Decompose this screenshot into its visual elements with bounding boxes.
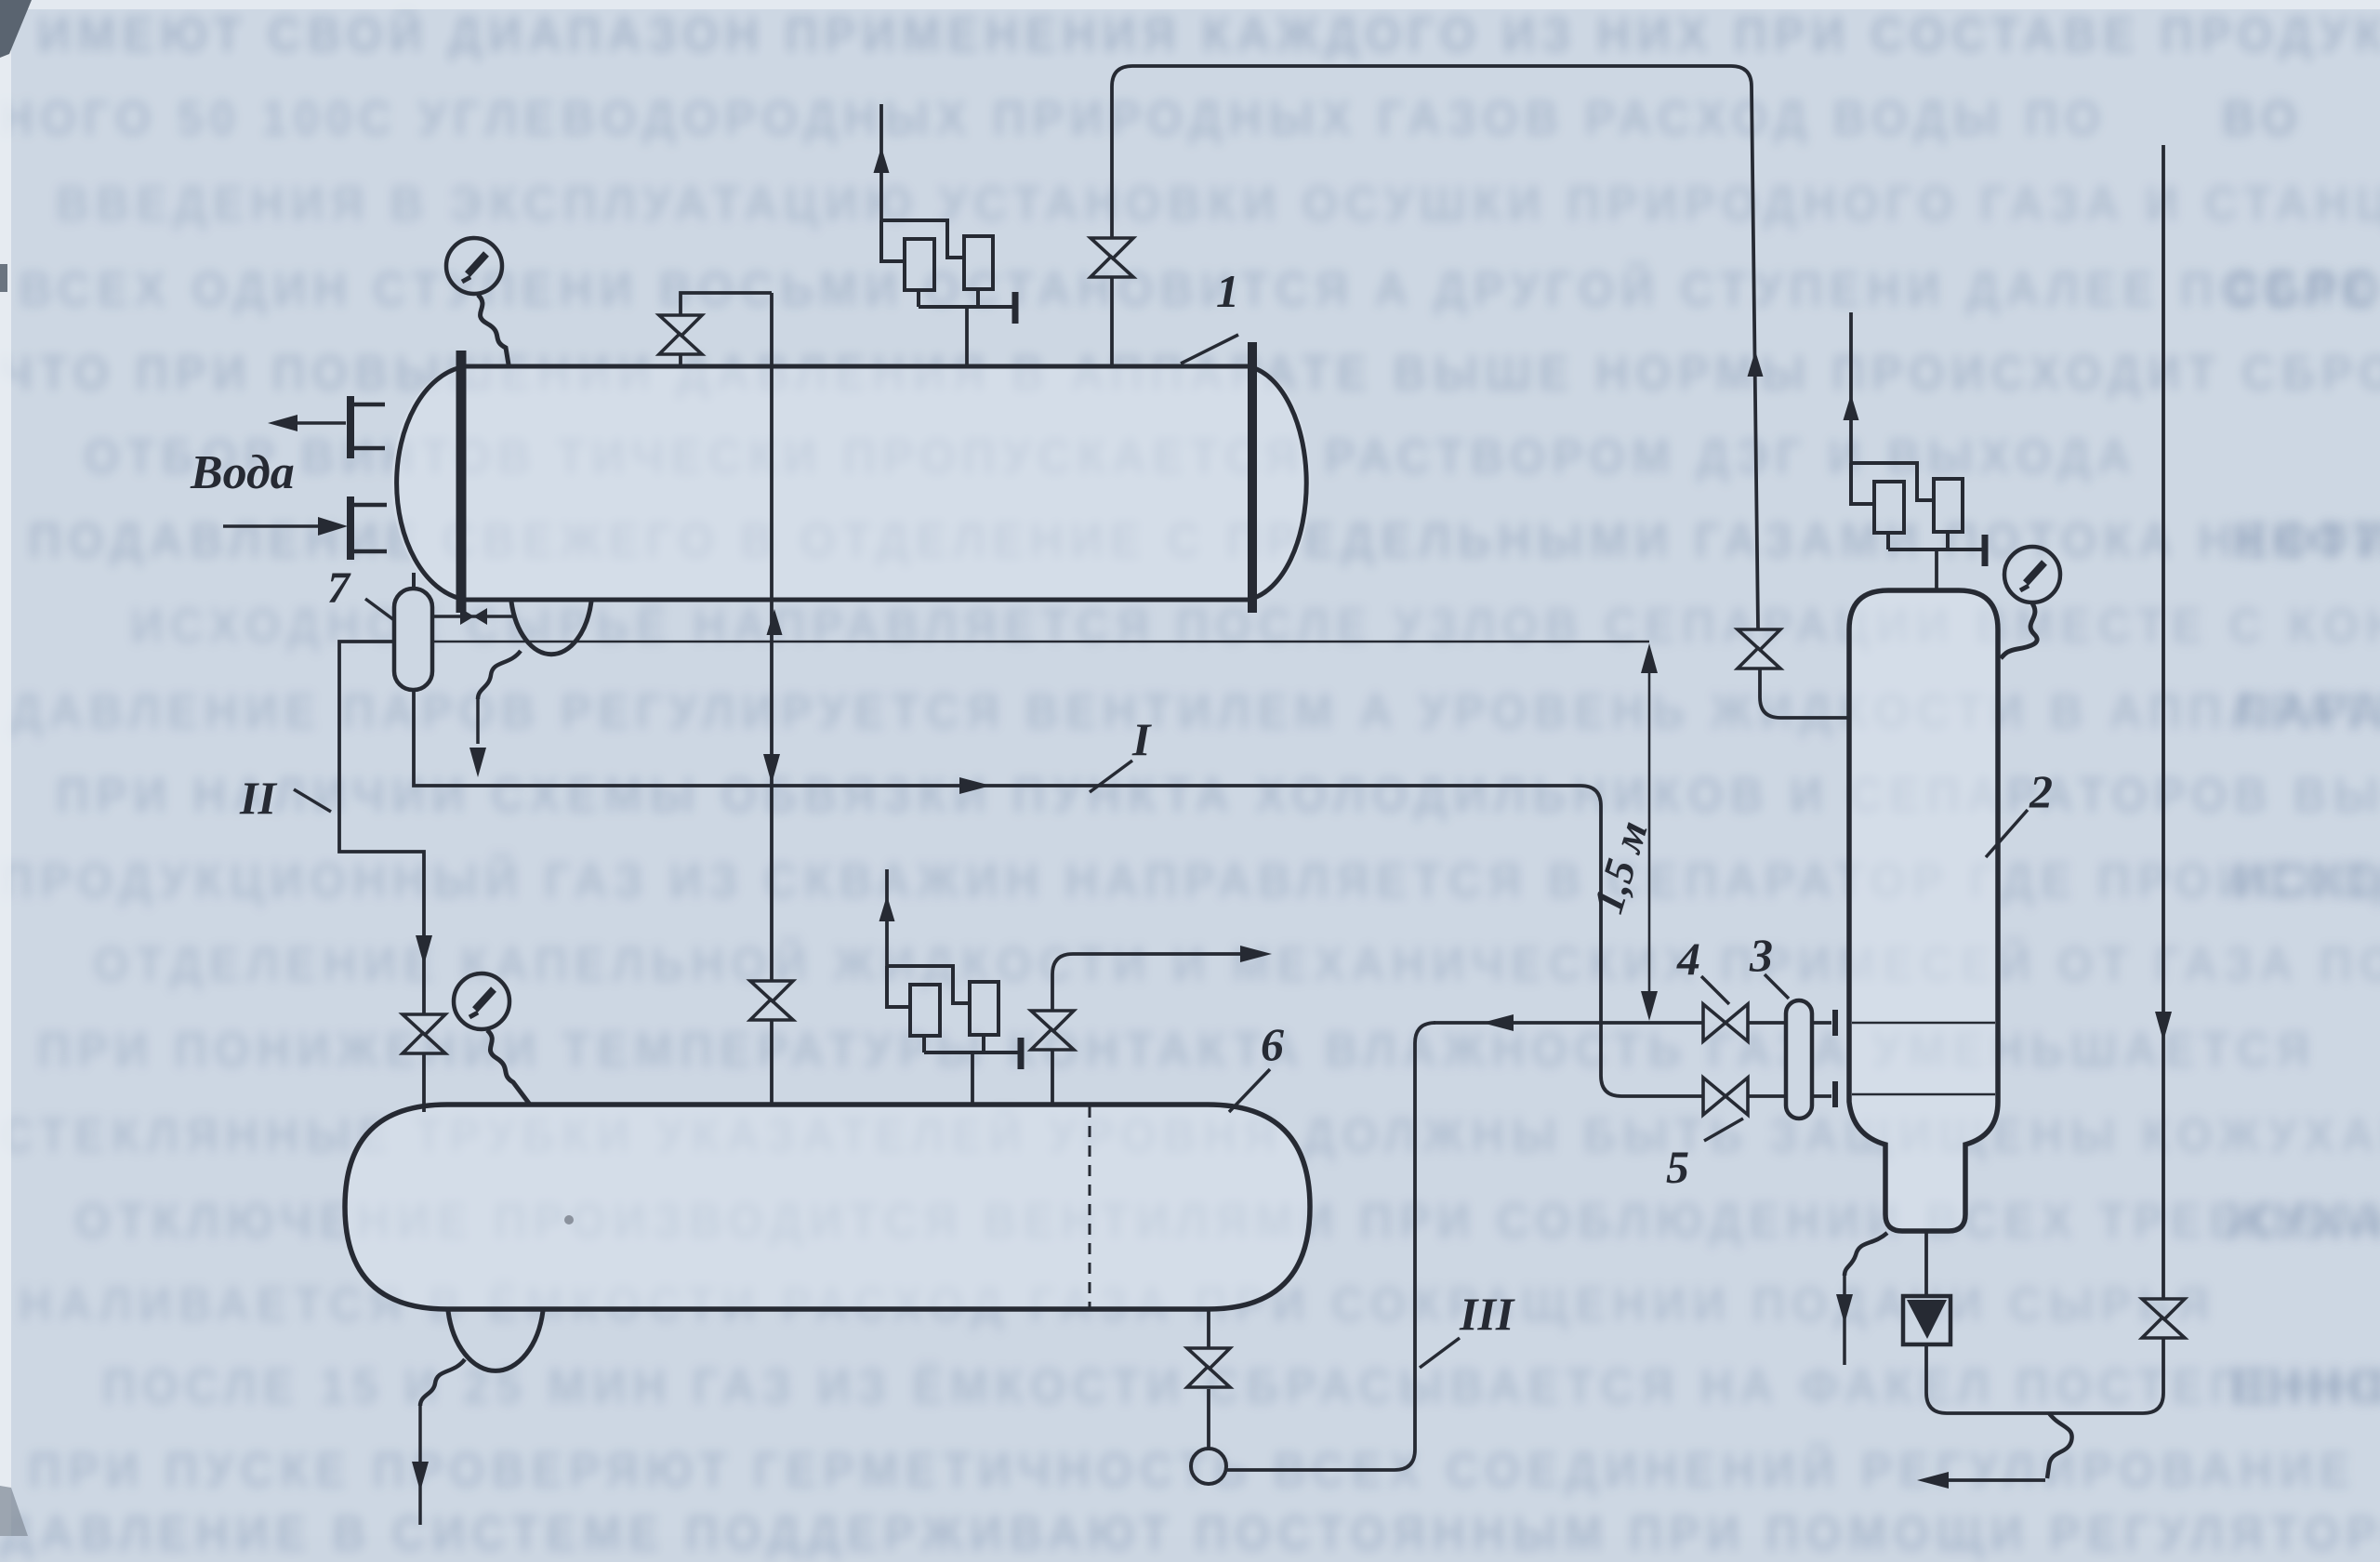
vessel 6 inlet valve from line II xyxy=(403,1014,445,1053)
vessel 6 sump xyxy=(448,1311,543,1370)
nozzle lower flange xyxy=(347,496,354,560)
line capsule to sump with small valve xyxy=(432,615,513,618)
sump drain squiggle xyxy=(478,651,521,699)
arrow up on vessel 2 overhead line xyxy=(1748,351,1764,377)
gauge 6 siphon squiggle xyxy=(487,1030,530,1105)
vessel 1 bottom sump xyxy=(511,602,591,655)
label 3 leader xyxy=(1765,974,1789,999)
svg-text:2: 2 xyxy=(2029,765,2053,817)
svg-text:I: I xyxy=(1131,713,1152,765)
safety valve assembly over vessel 2 xyxy=(1851,463,1985,566)
gauge on vessel 1 xyxy=(446,238,502,294)
label 5 leader xyxy=(1704,1119,1743,1141)
vessel 1 (horizontal heat exchanger) shell xyxy=(460,366,1249,600)
vessel 6 dashed partition xyxy=(1089,1106,1091,1307)
nozzle upper flange xyxy=(347,396,354,458)
gauge on vessel 6 xyxy=(454,973,509,1029)
gauge on vessel 2 xyxy=(2004,547,2060,602)
safety valve assembly over vessel 1 xyxy=(881,220,1015,324)
svg-text:5: 5 xyxy=(1666,1141,1689,1193)
sample point circle xyxy=(1191,1449,1226,1484)
vessel 1 right elliptical head xyxy=(1251,367,1306,599)
scan page edge artifacts xyxy=(0,0,2380,9)
line II arrow down xyxy=(416,935,432,965)
label 4 leader xyxy=(1701,976,1729,1004)
gauge 2 siphon squiggle xyxy=(2001,603,2037,658)
label 6 leader xyxy=(1229,1069,1270,1112)
svg-text:4: 4 xyxy=(1676,933,1700,985)
small valve 7 (filled) xyxy=(460,608,474,625)
vessel 2 internal tap lines xyxy=(1852,1023,1995,1094)
trap (filled square symbol) xyxy=(1903,1296,1950,1344)
bottom outlet tee squiggle and left arrow xyxy=(2047,1413,2072,1478)
label I leader xyxy=(1090,761,1132,792)
label II leader xyxy=(294,789,331,812)
svg-text:II: II xyxy=(239,772,277,824)
vessel 6 vent valve and arrow right xyxy=(1052,954,1246,1105)
valve above vessel 2 inlet xyxy=(1738,629,1780,668)
riser valve above vessel 6 xyxy=(750,981,793,1020)
water outlet arrow xyxy=(284,421,346,425)
riser arrow up below vessel 1 xyxy=(767,609,783,635)
label 1 leader xyxy=(1181,335,1238,364)
vessel 2 wall ticks xyxy=(1832,1010,1838,1107)
line I flow arrow xyxy=(959,777,991,794)
valve 4 piping left with arrow xyxy=(1434,1021,1831,1025)
nozzle lower body xyxy=(354,505,387,551)
sight glass 3 xyxy=(1786,1000,1812,1119)
vessel 6 stadium shell xyxy=(345,1105,1310,1309)
vessel 2 boot left drain squiggle xyxy=(1844,1233,1887,1276)
label 2 leader xyxy=(1986,810,2028,857)
svg-text:1: 1 xyxy=(1216,265,1239,317)
component 7 capsule xyxy=(394,589,432,690)
capsule 7 stub to head xyxy=(412,573,416,589)
vessel 1 interior fill xyxy=(391,366,1310,600)
sump drain arrow down xyxy=(476,699,480,744)
line I from capsule 7 down then right to valve 5 xyxy=(414,690,1621,1096)
water inlet arrow xyxy=(223,524,325,528)
svg-text:7: 7 xyxy=(327,563,351,613)
svg-text:1,5 м: 1,5 м xyxy=(1584,815,1657,919)
svg-text:6: 6 xyxy=(1261,1018,1284,1070)
riser to top pipe with valve xyxy=(1112,66,1758,629)
long riser from bypass through vessel 1 down to vessel 6 xyxy=(770,293,773,1105)
elbow into vessel 2 xyxy=(1760,669,1849,718)
vessel 1 right tube sheet xyxy=(1248,342,1257,613)
vessel 2 shell with bottom boot xyxy=(1849,590,1998,1231)
bypass stub and valve on vessel 1 top xyxy=(681,293,772,366)
label III leader xyxy=(1420,1338,1460,1368)
thin line from capsule 7 to dimension point xyxy=(432,641,1649,643)
vessel 6 bottom drain valve and sample circle xyxy=(1207,1309,1210,1448)
line II from capsule: left, down, jog, down to vessel 6 xyxy=(339,642,424,1013)
label 7 leader xyxy=(365,599,394,620)
valve 5 xyxy=(1703,1078,1748,1115)
vessel 6 sump squiggle xyxy=(420,1359,465,1406)
valve 4 xyxy=(1703,1004,1748,1041)
line III from circle right and up to valve 4 line xyxy=(1226,1023,1435,1470)
svg-text:Вода: Вода xyxy=(190,446,295,499)
gauge 1 siphon squiggle xyxy=(478,295,509,364)
safety valve assembly over vessel 6 xyxy=(887,966,1021,1069)
svg-text:3: 3 xyxy=(1749,929,1773,981)
vessel 6 drain line down with arrow xyxy=(418,1406,422,1525)
dimension line 1.5 m xyxy=(1648,651,1651,1013)
riser arrow down above line I xyxy=(763,754,780,784)
vessel 1 left tube sheet xyxy=(456,351,467,613)
right standpipe with arrow and valve xyxy=(1926,145,2163,1413)
svg-text:III: III xyxy=(1459,1288,1515,1340)
vessel 2 boot right drain to trap square xyxy=(1924,1231,1928,1346)
vessel 1 left elliptical head xyxy=(397,367,461,599)
nozzle upper body xyxy=(354,404,385,448)
